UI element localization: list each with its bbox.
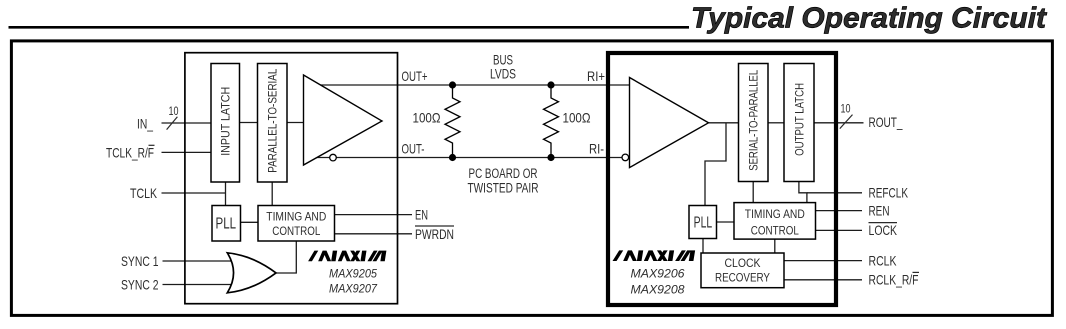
serial-to-parallel box	[739, 64, 769, 182]
parallel-to-serial box	[258, 64, 288, 183]
PLL box (left chip)	[212, 206, 241, 242]
svg-text:RCLK: RCLK	[869, 252, 897, 268]
svg-text:LVDS: LVDS	[490, 66, 516, 82]
svg-text:LOCK: LOCK	[869, 222, 898, 238]
junction dot RI+ R2	[547, 81, 554, 88]
bus width slash IN_	[167, 117, 178, 130]
svg-text:TIMING AND: TIMING AND	[745, 209, 805, 221]
inversion bubble RI-	[622, 154, 629, 161]
wire TCLK input	[162, 192, 226, 194]
svg-text:RCLK_R/F: RCLK_R/F	[869, 272, 919, 288]
inversion bubble OUT-	[330, 154, 337, 161]
svg-text:Typical Operating Circuit: Typical Operating Circuit	[691, 2, 1048, 34]
svg-text:TWISTED PAIR: TWISTED PAIR	[468, 181, 539, 196]
svg-text:10: 10	[169, 106, 179, 118]
wire LOCK output	[816, 229, 863, 231]
wire output latch down to junction	[799, 182, 807, 203]
svg-text:RI+: RI+	[587, 68, 605, 84]
input latch box	[211, 64, 240, 183]
svg-text:SYNC 1: SYNC 1	[121, 253, 159, 269]
overbar on F of RCLK_R/F	[913, 271, 920, 273]
timing and control box (right chip)	[734, 203, 816, 240]
wire output latch to ROUT_	[814, 122, 864, 124]
driver op-amp triangle	[304, 75, 383, 165]
wire EN output	[335, 214, 413, 216]
MAXIM logo (right chip)	[613, 250, 696, 261]
svg-text:TIMING AND: TIMING AND	[266, 211, 326, 223]
timing and control box (left chip)	[258, 206, 335, 242]
wire PLL to timing-and-control	[241, 221, 259, 223]
wire driver output feedback to PLL (right chip)	[705, 123, 726, 206]
receiver op-amp triangle (right chip)	[630, 78, 709, 168]
svg-text:OUT+: OUT+	[402, 68, 428, 84]
svg-text:INPUT LATCH: INPUT LATCH	[219, 87, 233, 156]
svg-text:PLL: PLL	[694, 215, 713, 232]
wire OUT- bus line	[310, 157, 630, 159]
clock recovery box	[701, 253, 784, 288]
svg-text:SYNC 2: SYNC 2	[121, 276, 159, 292]
svg-text:PC BOARD OR: PC BOARD OR	[469, 166, 538, 181]
svg-text:TCLK_R/F: TCLK_R/F	[106, 145, 154, 161]
svg-text:MAX9207: MAX9207	[329, 282, 378, 296]
svg-text:PLL: PLL	[216, 215, 237, 232]
wire input latch to parallel-to-serial	[240, 122, 258, 124]
svg-text:RI-: RI-	[589, 140, 604, 156]
overbar on F of TCLK_R/F	[149, 144, 155, 146]
wire IN_ input	[162, 122, 213, 124]
svg-text:MAX9206: MAX9206	[631, 267, 685, 281]
resistor R2 100ohm	[544, 85, 559, 158]
svg-text:TCLK: TCLK	[130, 185, 157, 201]
svg-text:MAX9205: MAX9205	[329, 267, 377, 281]
MAXIM logo (left chip)	[308, 251, 386, 262]
wire timing bottom to OR output	[276, 241, 296, 273]
junction dot OUT+ R1	[449, 81, 456, 88]
wire REFCLK output	[807, 192, 862, 194]
svg-text:IN_: IN_	[137, 116, 153, 132]
output latch box	[784, 64, 814, 182]
title rule	[9, 26, 690, 29]
wire timing down to clock recovery	[774, 239, 776, 253]
svg-text:OUTPUT LATCH: OUTPUT LATCH	[792, 83, 806, 156]
svg-text:MAX9208: MAX9208	[631, 283, 685, 297]
svg-text:REN: REN	[869, 202, 890, 218]
resistor R1 100ohm	[445, 85, 460, 158]
svg-text:100Ω: 100Ω	[413, 110, 441, 126]
overbar PWRDN	[415, 225, 454, 227]
wire RCLK output	[784, 260, 862, 262]
wire serial-to-parallel to timing vertical	[752, 182, 754, 203]
wire receiver apex to serial-to-parallel	[709, 122, 739, 124]
right chip MAX9206/MAX9208 thick outline	[608, 53, 836, 305]
wire parallel-to-serial to driver	[287, 122, 304, 124]
wire input latch to PLL vertical	[225, 182, 227, 206]
svg-text:OUT-: OUT-	[402, 140, 425, 156]
PLL box (right chip)	[689, 206, 717, 239]
svg-text:RECOVERY: RECOVERY	[715, 272, 770, 284]
wire REN output	[816, 210, 863, 212]
svg-text:SERIAL-TO-PARALLEL: SERIAL-TO-PARALLEL	[747, 70, 761, 171]
wire PLL down to clock recovery	[702, 239, 704, 254]
junction dot OUT- R1	[449, 154, 456, 161]
bus width slash ROUT_	[840, 115, 853, 129]
svg-text:PWRDN: PWRDN	[415, 226, 454, 242]
wire OUT+ bus line	[308, 84, 630, 86]
overbar LOCK	[869, 222, 898, 224]
wire serial-to-parallel to output latch	[768, 122, 784, 124]
svg-text:CONTROL: CONTROL	[272, 226, 321, 238]
wire PLL to timing (right chip)	[717, 221, 735, 223]
wire SYNC 2 input	[163, 284, 239, 286]
wire parallel-to-serial to timing vertical	[271, 182, 273, 206]
svg-text:CLOCK: CLOCK	[725, 258, 761, 270]
wire PWRDN output	[335, 233, 413, 235]
svg-text:PARALLEL-TO-SERIAL: PARALLEL-TO-SERIAL	[266, 68, 280, 172]
wire SYNC 1 input	[163, 260, 239, 262]
svg-text:ROUT_: ROUT_	[869, 114, 903, 130]
OR gate U2	[227, 253, 276, 293]
svg-text:10: 10	[841, 103, 851, 115]
wire TCLK_R/F input	[162, 151, 213, 153]
svg-text:100Ω: 100Ω	[563, 110, 591, 126]
svg-text:REFCLK: REFCLK	[869, 185, 909, 201]
svg-text:EN: EN	[415, 206, 428, 222]
left chip MAX9205/MAX9207 outline	[185, 53, 398, 304]
junction dot RI- R2	[547, 154, 554, 161]
wire RCLK_R/F output	[784, 279, 862, 281]
svg-text:CONTROL: CONTROL	[751, 225, 800, 237]
